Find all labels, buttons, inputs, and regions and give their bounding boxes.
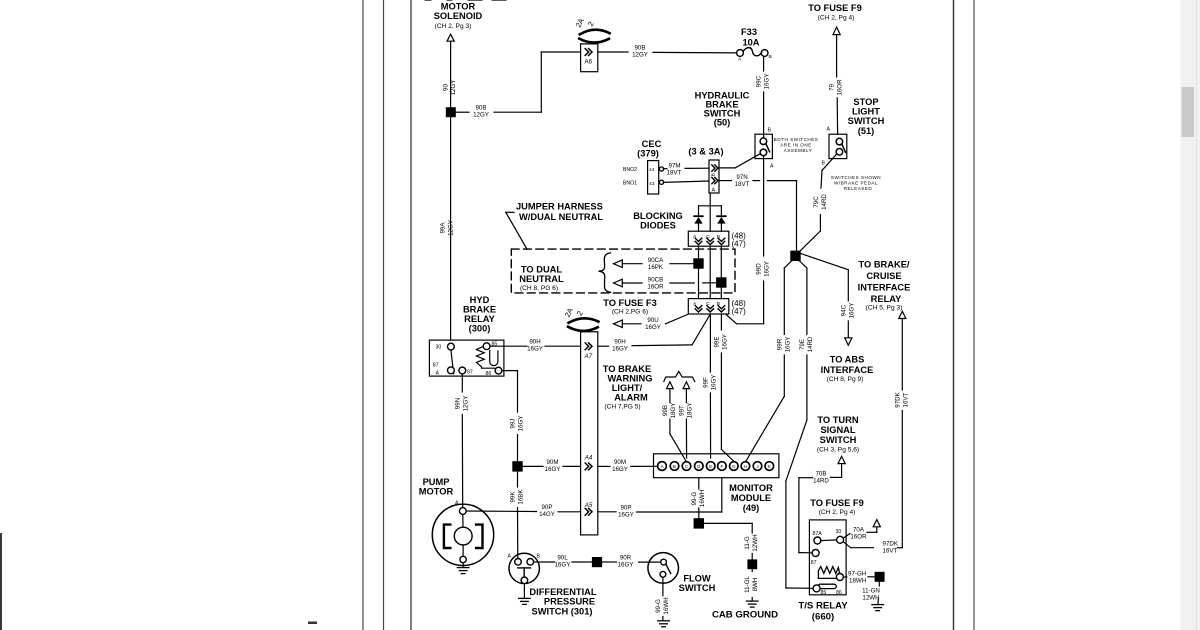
- wire 90H diagonal from connector C: [598, 314, 711, 352]
- svg-text:PUMP: PUMP: [423, 477, 450, 487]
- svg-text:LIGHT/: LIGHT/: [612, 383, 643, 393]
- svg-text:C: C: [685, 464, 688, 469]
- wire 90U 16GY to fuse F3 arrow: [614, 314, 689, 331]
- wire 94C 16GY to ABS interface: [841, 270, 856, 346]
- svg-text:14RD: 14RD: [813, 477, 829, 484]
- svg-text:STOP: STOP: [853, 97, 878, 107]
- svg-text:T/S RELAY: T/S RELAY: [798, 601, 848, 612]
- svg-text:BNO2: BNO2: [623, 167, 637, 173]
- wire 99D 16GY switch A down to connector B: [726, 156, 771, 324]
- svg-text:ALARM: ALARM: [614, 393, 648, 403]
- svg-text:(CH 2, Pg 4): (CH 2, Pg 4): [818, 15, 855, 22]
- svg-text:99B: 99B: [662, 405, 669, 416]
- connector MONITOR MODULE: [654, 454, 779, 478]
- svg-text:B: B: [673, 464, 676, 469]
- svg-text:B: B: [710, 173, 716, 176]
- svg-text:G: G: [732, 464, 736, 469]
- clipped text sliver at top: [425, 0, 506, 1]
- svg-text:D: D: [697, 464, 700, 469]
- svg-text:(47): (47): [732, 240, 747, 249]
- svg-text:SWITCH (301): SWITCH (301): [532, 606, 593, 616]
- wire 97M 18VT: [663, 163, 709, 177]
- svg-text:BNO1: BNO1: [623, 181, 637, 187]
- svg-text:11-G: 11-G: [744, 536, 751, 549]
- svg-text:90P: 90P: [620, 504, 631, 511]
- ground symbol pump motor: [457, 568, 469, 574]
- svg-text:97M: 97M: [669, 163, 681, 170]
- wire column C between connectors: [709, 246, 711, 298]
- label T/S RELAY (660): [798, 601, 848, 623]
- svg-text:97DK: 97DK: [883, 541, 899, 548]
- svg-text:10A: 10A: [742, 38, 759, 48]
- svg-text:99N: 99N: [455, 398, 462, 409]
- page rule line left B: [383, 0, 385, 630]
- wire 11-GL 8WH: [744, 569, 759, 600]
- diode D2 (right): [717, 216, 726, 231]
- svg-text:70A: 70A: [853, 527, 865, 534]
- wire 90H through harness A7: [490, 338, 581, 352]
- svg-text:CAB GROUND: CAB GROUND: [712, 610, 778, 621]
- label TO FUSE F9 (lower): [810, 498, 864, 516]
- wire 97DK 16VT up to brake/cruise relay: [895, 311, 910, 547]
- wire 90L 16GY: [534, 555, 592, 569]
- svg-text:W/DUAL NEUTRAL: W/DUAL NEUTRAL: [519, 212, 603, 222]
- wire connector to switch 50 pin A: [719, 154, 760, 168]
- svg-text:90CA: 90CA: [648, 257, 664, 264]
- ground symbol cab ground: [746, 601, 758, 607]
- svg-text:CRUISE: CRUISE: [866, 271, 901, 281]
- wire column A between connectors: [698, 246, 700, 298]
- svg-text:99-G: 99-G: [655, 599, 662, 613]
- motor PUMP: [432, 501, 493, 567]
- svg-text:85: 85: [492, 341, 498, 347]
- label DIFFERENTIAL PRESSURE SWITCH (301): [529, 587, 596, 616]
- svg-text:TO BRAKE: TO BRAKE: [603, 364, 651, 374]
- svg-text:79E: 79E: [799, 339, 806, 350]
- svg-text:16WH: 16WH: [663, 597, 670, 614]
- svg-text:(49): (49): [743, 503, 760, 513]
- svg-text:DIFFERENTIAL: DIFFERENTIAL: [529, 587, 596, 597]
- label TO ABS INTERFACE: [821, 355, 874, 384]
- label FLOW SWITCH: [679, 574, 716, 594]
- svg-text:12GY: 12GY: [473, 112, 489, 119]
- svg-text:A: A: [661, 464, 664, 469]
- svg-text:99F: 99F: [703, 377, 710, 388]
- svg-text:SWITCHES SHOWN: SWITCHES SHOWN: [831, 175, 881, 180]
- wire 99F 16GY connector C to monitor pin E: [703, 314, 718, 458]
- svg-text:SWITCH: SWITCH: [820, 435, 857, 445]
- svg-text:W/BRAKE PEDAL: W/BRAKE PEDAL: [834, 181, 878, 186]
- svg-text:18GY: 18GY: [687, 403, 694, 419]
- svg-text:RELEASED: RELEASED: [844, 186, 873, 191]
- wire 79E 14RD junction to T/S relay 85: [786, 261, 814, 588]
- label JUMPER HARNESS W/DUAL NEUTRAL: [516, 202, 603, 223]
- arrow to fuse F9: [833, 27, 840, 35]
- svg-text:(300): (300): [469, 324, 491, 334]
- wire 11-G 12WH to cab ground: [704, 523, 759, 559]
- svg-text:BRAKE: BRAKE: [463, 305, 496, 315]
- junction node 11-GL: [747, 559, 757, 569]
- label HYDRAULIC BRAKE SWITCH (50): [695, 91, 750, 128]
- svg-text:90U: 90U: [647, 317, 658, 324]
- wire BNO1 row to connector: [663, 181, 709, 182]
- wire 90M 16GY to monitor pin A: [598, 459, 658, 473]
- svg-text:99T: 99T: [679, 405, 686, 416]
- diode D1 (left): [694, 216, 703, 231]
- svg-text:DIODES: DIODES: [640, 221, 676, 231]
- svg-text:(3 & 3A): (3 & 3A): [688, 147, 723, 157]
- wire 99E 16GY connector B to monitor pin G: [714, 314, 734, 461]
- svg-text:A: A: [827, 127, 831, 133]
- svg-text:A: A: [436, 371, 440, 377]
- connector A5: [584, 502, 593, 515]
- connector 48/47 upper: [688, 231, 746, 248]
- svg-text:SOLENOID: SOLENOID: [434, 11, 483, 21]
- module CEC 379: [623, 161, 664, 194]
- wire 99C 16GY fuse to hyd brake switch: [756, 57, 771, 138]
- svg-text:99C: 99C: [756, 75, 763, 87]
- note BOTH SWITCHES ARE IN ONE ASSEMBLY: [774, 137, 819, 153]
- svg-text:30: 30: [436, 345, 442, 351]
- svg-text:16GY: 16GY: [785, 337, 792, 353]
- arrow to motor solenoid: [447, 34, 454, 41]
- svg-text:14RD: 14RD: [821, 194, 828, 210]
- svg-text:(CH 8, PG 6): (CH 8, PG 6): [520, 285, 558, 292]
- wire monitor pin F drop: [698, 478, 721, 512]
- wire 97DK 16VT from relay 30: [843, 541, 902, 555]
- svg-text:90B: 90B: [634, 45, 645, 52]
- svg-text:BLOCKING: BLOCKING: [633, 211, 683, 221]
- svg-text:B: B: [537, 554, 541, 560]
- wire 90P 14GY pump A to the right: [466, 504, 580, 518]
- svg-text:44: 44: [649, 167, 655, 173]
- wire diode feed from connector A: [709, 193, 711, 231]
- wire 99J 16GY relay 86 down: [502, 371, 525, 462]
- svg-text:12GY: 12GY: [448, 220, 455, 236]
- connector A4: [584, 455, 593, 470]
- junction node 90M: [512, 461, 522, 471]
- svg-text:WARNING: WARNING: [608, 374, 653, 384]
- svg-text:BOTH SWITCHES: BOTH SWITCHES: [774, 137, 819, 142]
- svg-text:12GY: 12GY: [450, 80, 457, 96]
- svg-text:SWITCH: SWITCH: [679, 583, 716, 593]
- svg-text:(660): (660): [812, 612, 834, 623]
- junction node 90/90B/99A: [446, 107, 456, 117]
- fuse F33 10A: [737, 27, 772, 63]
- ground symbol pressure switch: [519, 598, 531, 604]
- wire 99N 12GY relay 87 to pump motor: [455, 374, 470, 508]
- leader line jumper harness: [506, 212, 527, 249]
- svg-text:MOTOR: MOTOR: [419, 487, 454, 497]
- svg-text:16VT: 16VT: [903, 392, 910, 407]
- svg-text:16GY: 16GY: [612, 345, 628, 352]
- scrollbar track: [1181, 0, 1200, 630]
- dashed box jumper harness w/dual neutral: [511, 249, 735, 293]
- wire 99K 16BK down to pressure switch: [510, 472, 525, 559]
- label TO BRAKE WARNING LIGHT/ALARM: [603, 364, 653, 411]
- svg-text:97-GH: 97-GH: [848, 570, 866, 577]
- svg-text:16GY: 16GY: [711, 375, 718, 391]
- svg-text:90H: 90H: [614, 338, 625, 345]
- svg-text:12WH: 12WH: [862, 594, 879, 601]
- svg-text:90H: 90H: [529, 338, 540, 345]
- svg-text:A: A: [770, 164, 774, 170]
- svg-text:TO DUAL: TO DUAL: [521, 265, 562, 275]
- svg-text:TO FUSE F9: TO FUSE F9: [808, 3, 862, 13]
- svg-text:H: H: [744, 464, 747, 469]
- svg-text:HYD: HYD: [470, 295, 490, 305]
- svg-text:B: B: [768, 128, 772, 134]
- svg-text:90B: 90B: [475, 105, 486, 112]
- svg-text:87: 87: [467, 370, 473, 376]
- wire 90CA 16PK with arrow: [614, 257, 694, 271]
- svg-text:99K: 99K: [510, 491, 517, 503]
- svg-text:(CH 2, Pg 3): (CH 2, Pg 3): [435, 23, 472, 30]
- svg-text:(379): (379): [637, 149, 659, 159]
- svg-text:16GY: 16GY: [764, 261, 771, 277]
- svg-text:K: K: [768, 464, 771, 469]
- svg-text:99-G: 99-G: [691, 491, 698, 505]
- brace brake warning wires: [664, 371, 695, 381]
- svg-text:FLOW: FLOW: [683, 574, 711, 584]
- svg-text:16GY: 16GY: [618, 511, 634, 518]
- scrollbar edge line: [1196, 0, 1198, 630]
- svg-text:SIGNAL: SIGNAL: [820, 425, 855, 435]
- wire 90B 12GY (left run to A6): [456, 52, 581, 119]
- svg-text:16GY: 16GY: [618, 562, 634, 569]
- switch differential pressure 301: [508, 553, 541, 597]
- wire column B between connectors: [720, 246, 722, 298]
- svg-text:LIGHT: LIGHT: [852, 107, 880, 117]
- svg-text:86: 86: [486, 371, 492, 377]
- label CEC (379): [637, 139, 661, 159]
- page rule line left A: [362, 0, 364, 630]
- svg-text:16BK: 16BK: [518, 489, 525, 505]
- label TO TURN SIGNAL SWITCH: [817, 415, 859, 454]
- svg-text:99R: 99R: [777, 338, 784, 350]
- svg-text:A: A: [712, 188, 716, 194]
- arrow to turn signal switch: [838, 456, 845, 477]
- svg-text:30: 30: [836, 529, 842, 535]
- wire 97-GH 18WH relay 86 to splice: [843, 570, 874, 584]
- wire 97N 18VT: [719, 174, 797, 251]
- label TO FUSE F3 (CH 2,PG 6): [603, 298, 657, 316]
- svg-text:MONITOR: MONITOR: [729, 483, 773, 493]
- svg-text:85: 85: [821, 590, 827, 596]
- label PUMP MOTOR: [419, 477, 454, 497]
- svg-text:87: 87: [433, 363, 439, 369]
- scrollbar thumb: [1182, 87, 1195, 137]
- wire 11-GN 12WH to ground: [862, 582, 880, 604]
- harness grommet 2A/2 over tall box: [563, 306, 599, 330]
- svg-text:16GY: 16GY: [722, 334, 729, 350]
- label HYD BRAKE RELAY (300): [463, 295, 496, 334]
- svg-text:16GY: 16GY: [518, 416, 525, 432]
- wire 99A 12GY vertical to relay pin 30: [440, 117, 455, 340]
- svg-text:INTERFACE: INTERFACE: [858, 283, 911, 293]
- svg-text:(47): (47): [732, 307, 747, 316]
- svg-text:97DK: 97DK: [895, 391, 902, 407]
- svg-text:18WH: 18WH: [849, 577, 866, 584]
- svg-text:18GY: 18GY: [670, 403, 677, 419]
- svg-text:16PK: 16PK: [648, 264, 664, 271]
- wire pointer to brake/cruise relay: [801, 254, 849, 270]
- svg-text:87A: 87A: [813, 531, 823, 537]
- label TO FUSE F9 (top): [808, 3, 862, 22]
- page rule line right B: [973, 0, 975, 630]
- wire 90R 16GY: [602, 555, 661, 569]
- note SWITCHES SHOWN W/BRAKE PEDAL RELEASED: [831, 175, 881, 191]
- svg-text:86: 86: [836, 590, 842, 596]
- svg-text:11-GL: 11-GL: [744, 576, 751, 593]
- wire 79C 14RD switch B down to junction: [799, 155, 836, 252]
- page rule line right A: [953, 0, 955, 630]
- wire 70B 14RD: [799, 470, 842, 552]
- svg-text:(CH 3, Pg 5,6): (CH 3, Pg 5,6): [817, 447, 859, 454]
- junction node 11-GN: [875, 572, 885, 582]
- svg-text:79: 79: [829, 84, 836, 91]
- connector A7: [584, 343, 593, 360]
- label (3 & 3A): [688, 147, 723, 157]
- svg-text:43: 43: [649, 181, 655, 187]
- wire 99T 18GY with arrow to monitor pin C: [679, 382, 694, 458]
- svg-text:TO FUSE F9: TO FUSE F9: [810, 498, 864, 508]
- svg-text:12GY: 12GY: [632, 52, 648, 59]
- svg-text:16GY: 16GY: [764, 74, 771, 90]
- junction node 90CA: [693, 258, 703, 268]
- svg-text:16WH: 16WH: [699, 490, 706, 507]
- svg-text:90M: 90M: [614, 459, 626, 466]
- svg-text:8WH: 8WH: [752, 578, 759, 592]
- label MOTOR SOLENOID: [434, 2, 483, 30]
- svg-text:MODULE: MODULE: [731, 493, 771, 503]
- wire diode bridge: [699, 206, 722, 216]
- connector 48/47 lower: [688, 299, 746, 316]
- svg-text:99J: 99J: [510, 419, 517, 429]
- svg-text:99E: 99E: [714, 336, 721, 347]
- svg-text:TO BRAKE/: TO BRAKE/: [859, 260, 910, 270]
- svg-text:90L: 90L: [557, 555, 568, 562]
- svg-text:79C: 79C: [813, 196, 820, 208]
- svg-text:TO FUSE F3: TO FUSE F3: [603, 298, 657, 308]
- junction node cab ground branch: [694, 518, 704, 528]
- svg-text:18VT: 18VT: [667, 170, 682, 177]
- stop light switch 51: [822, 127, 847, 167]
- svg-text:(CH 2,PG 6): (CH 2,PG 6): [612, 309, 648, 316]
- svg-text:16GY: 16GY: [527, 345, 543, 352]
- harness trunk box: [581, 332, 598, 535]
- wire 90P 16GY to monitor node: [598, 504, 699, 518]
- wire 99-G 16WH monitor pin D to splice: [691, 478, 706, 519]
- svg-text:14GY: 14GY: [539, 511, 555, 518]
- svg-text:87: 87: [811, 560, 817, 566]
- svg-text:A: A: [455, 501, 459, 507]
- svg-text:SWITCH: SWITCH: [848, 116, 885, 126]
- svg-text:16OR: 16OR: [850, 534, 867, 541]
- svg-text:JUMPER HARNESS: JUMPER HARNESS: [516, 202, 603, 212]
- svg-text:16OR: 16OR: [647, 283, 664, 290]
- svg-text:11-GN: 11-GN: [862, 587, 880, 594]
- harness grommet 2A/2 over A6: [574, 17, 610, 43]
- svg-text:18VT: 18VT: [735, 181, 750, 188]
- svg-text:90P: 90P: [541, 504, 552, 511]
- svg-text:99A: 99A: [440, 222, 447, 234]
- svg-text:16VT: 16VT: [883, 548, 898, 555]
- svg-text:TO ABS: TO ABS: [830, 355, 865, 365]
- svg-text:(CH 8, Pg 9): (CH 8, Pg 9): [827, 376, 864, 383]
- svg-text:(CH 7,PG 5): (CH 7,PG 5): [604, 404, 640, 411]
- svg-text:14RD: 14RD: [807, 336, 814, 352]
- svg-text:A: A: [508, 554, 512, 560]
- svg-text:94C: 94C: [841, 304, 848, 316]
- svg-text:70B: 70B: [815, 470, 826, 477]
- wire 79 16OR: [829, 35, 844, 135]
- wire 90 12GY vertical: [443, 41, 458, 107]
- label CAB GROUND: [712, 610, 778, 621]
- relay T/S 660: [809, 520, 846, 596]
- brace for dual neutral wires: [599, 253, 611, 292]
- svg-text:16GY: 16GY: [612, 466, 628, 473]
- svg-text:A6: A6: [585, 59, 593, 66]
- svg-text:RELAY: RELAY: [871, 294, 902, 304]
- page edge line bottom-left: [0, 534, 2, 630]
- label MONITOR MODULE (49): [729, 483, 773, 513]
- junction node 90CB: [716, 277, 726, 287]
- wire 90M row relay side: [523, 459, 581, 473]
- connector A6: [581, 44, 598, 72]
- relay HYD BRAKE 300: [429, 340, 504, 377]
- wire 90B 12GY (A6 to fuse F33): [598, 45, 737, 59]
- junction node 90L/90R: [592, 557, 602, 567]
- hydraulic brake switch 50: [755, 128, 774, 170]
- svg-text:16OR: 16OR: [837, 79, 844, 96]
- svg-text:(CH 5, Pg 3): (CH 5, Pg 3): [866, 305, 903, 312]
- svg-text:16GY: 16GY: [645, 324, 661, 331]
- wire 99R 16GY junction to monitor pin H: [746, 261, 792, 461]
- svg-text:E: E: [709, 464, 712, 469]
- wire 90CB 16OR with arrow: [614, 276, 717, 290]
- svg-text:TO TURN: TO TURN: [817, 415, 858, 425]
- svg-text:90: 90: [443, 84, 450, 91]
- svg-text:90M: 90M: [546, 459, 558, 466]
- svg-text:PRESSURE: PRESSURE: [544, 597, 595, 607]
- wire 99B 18GY with arrow to monitor pin C: [662, 382, 686, 461]
- svg-text:90CB: 90CB: [648, 276, 663, 283]
- junction node main (brake switch circuits): [790, 251, 800, 261]
- label TO BRAKE/CRUISE INTERFACE RELAY: [858, 260, 911, 312]
- wire 99-G 16WH flow switch to ground: [655, 577, 670, 620]
- svg-text:F: F: [721, 464, 724, 469]
- svg-text:ASSEMBLY: ASSEMBLY: [784, 148, 812, 153]
- svg-text:(50): (50): [714, 118, 731, 128]
- svg-text:A4: A4: [584, 455, 593, 462]
- svg-text:(51): (51): [858, 126, 875, 136]
- ground symbol flow switch: [658, 621, 670, 627]
- svg-text:A7: A7: [584, 353, 593, 360]
- connector 3 & 3A: [709, 160, 719, 194]
- svg-text:J: J: [756, 464, 758, 469]
- svg-text:12WH: 12WH: [752, 534, 759, 551]
- svg-text:ARE IN ONE: ARE IN ONE: [780, 143, 812, 148]
- svg-text:90R: 90R: [620, 555, 632, 562]
- svg-text:16GY: 16GY: [555, 562, 571, 569]
- svg-text:99D: 99D: [756, 263, 763, 275]
- svg-text:12GY: 12GY: [463, 396, 470, 412]
- svg-text:16GY: 16GY: [545, 466, 561, 473]
- page rule line left C (frame): [410, 0, 412, 630]
- svg-text:INTERFACE: INTERFACE: [821, 365, 874, 375]
- stray mark bottom-left: [308, 622, 317, 625]
